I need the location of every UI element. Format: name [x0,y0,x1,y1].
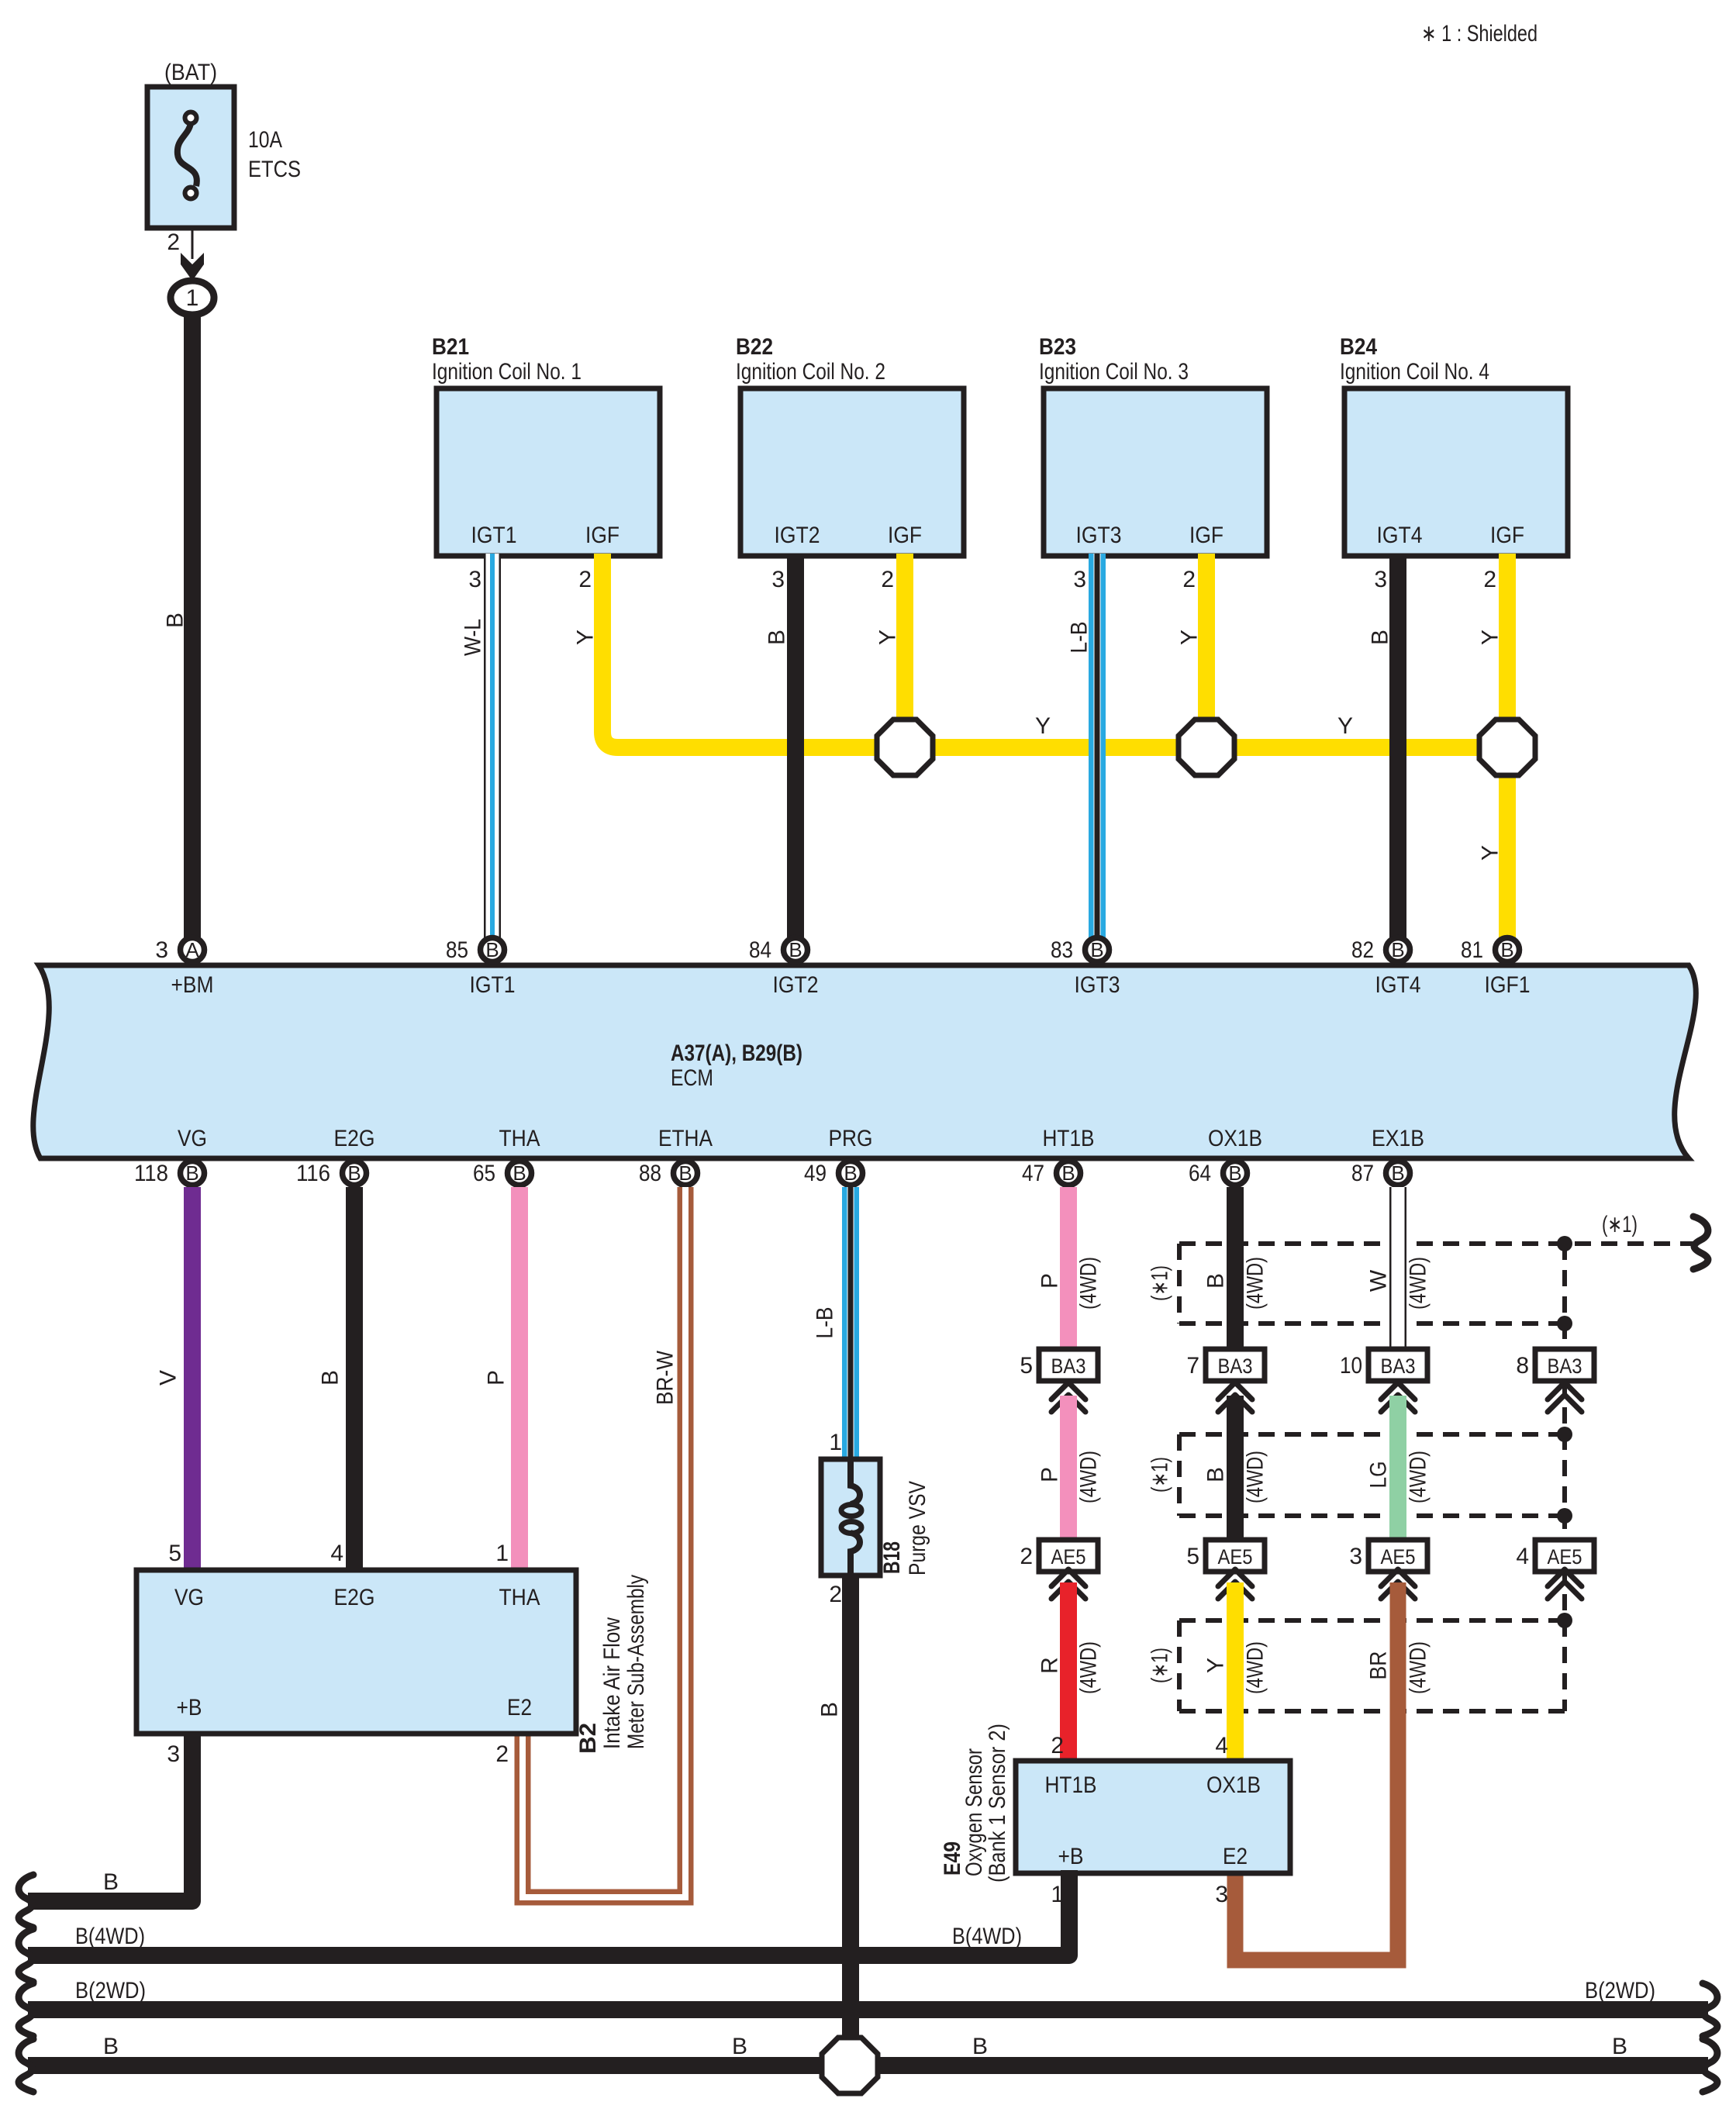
arrow into connector [181,253,204,281]
svg-text:Meter Sub-Assembly: Meter Sub-Assembly [623,1575,649,1749]
svg-text:3: 3 [1349,1544,1362,1569]
svg-text:2: 2 [1483,567,1496,592]
svg-text:W: W [1366,1269,1392,1292]
svg-text:B: B [103,2034,119,2059]
ECM pin 83 B [1051,937,1110,963]
svg-text:LG: LG [1366,1462,1392,1489]
svg-text:B: B [789,938,802,961]
wire B E2G [346,1187,363,1573]
svg-text:B: B [732,2034,747,2059]
svg-text:2: 2 [881,567,894,592]
svg-text:(∗1): (∗1) [1148,1457,1173,1493]
svg-text:B(2WD): B(2WD) [75,1978,146,2003]
svg-text:B: B [485,938,499,961]
oxygen sensor E49 [940,1724,1290,1907]
connector 4 AE5 [1516,1540,1594,1572]
wire B main ground bus [28,2057,1708,2074]
svg-text:B: B [1391,1161,1404,1185]
svg-text:49: 49 [804,1161,827,1186]
svg-text:BA3: BA3 [1381,1355,1416,1378]
svg-text:B: B [1368,630,1393,645]
svg-text:THA: THA [499,1126,540,1151]
wire BR AE5 to oxygen sensor E2 [1235,1582,1398,1960]
svg-text:64: 64 [1189,1161,1211,1186]
svg-text:8: 8 [1516,1353,1529,1379]
ignition coil B21 [432,334,660,592]
svg-text:(BAT): (BAT) [164,60,217,85]
wire B(4WD) oxygen sensor +B to ground [28,1870,1069,1955]
svg-text:EX1B: EX1B [1372,1126,1424,1151]
ECM pin 118 B [134,1161,205,1186]
svg-text:4: 4 [1215,1733,1228,1758]
svg-text:Y: Y [875,630,901,645]
svg-text:IGF: IGF [1490,523,1524,548]
ECM pin 3 A [155,937,204,963]
svg-text:BA3: BA3 [1218,1355,1253,1378]
svg-text:IGT4: IGT4 [1375,972,1421,998]
svg-text:85: 85 [446,937,468,963]
svg-text:2: 2 [167,230,180,255]
svg-text:Ignition Coil No. 1: Ignition Coil No. 1 [432,359,582,385]
svg-text:B(2WD): B(2WD) [1585,1978,1655,2003]
svg-text:(∗1): (∗1) [1148,1648,1173,1683]
svg-text:(4WD): (4WD) [1076,1257,1102,1310]
svg-text:B: B [1203,1467,1229,1482]
svg-text:118: 118 [134,1161,168,1186]
svg-text:IGT1: IGT1 [470,972,516,998]
svg-text:7: 7 [1186,1353,1199,1379]
break squiggle B bottom left [19,2039,33,2092]
svg-text:(4WD): (4WD) [1406,1641,1431,1694]
svg-text:1: 1 [495,1541,509,1566]
wire L-B IGT3 to ECM [1089,554,1106,937]
wire W EX1B to BA3 [1389,1187,1406,1352]
svg-text:10A: 10A [248,127,282,153]
svg-text:AE5: AE5 [1381,1545,1416,1569]
shield dashed box 2 [1179,1432,1565,1437]
svg-text:Y: Y [1478,630,1503,645]
svg-text:Ignition Coil No. 3: Ignition Coil No. 3 [1039,359,1189,385]
svg-text:AE5: AE5 [1051,1545,1086,1569]
connector 10 BA3 [1340,1349,1427,1381]
svg-text:IGT1: IGT1 [471,523,517,548]
svg-text:84: 84 [749,937,771,963]
svg-text:3: 3 [1215,1882,1228,1907]
svg-text:5: 5 [168,1541,181,1566]
wire Y bus from B21 IGF to IGF1 [602,554,1507,747]
svg-text:PRG: PRG [829,1126,873,1151]
svg-text:Y: Y [1203,1658,1229,1673]
svg-text:B(4WD): B(4WD) [952,1924,1022,1949]
ECM pin 81 B [1461,937,1520,963]
svg-text:87: 87 [1351,1161,1374,1186]
svg-text:IGT2: IGT2 [775,523,820,548]
wire P THA [511,1187,528,1573]
ECM pin 84 B [749,937,808,963]
connector 2 AE5 [1020,1540,1098,1572]
ECM pin 88 B [639,1161,698,1186]
junction octagon B24 [1479,720,1535,775]
svg-text:(4WD): (4WD) [1406,1257,1431,1310]
ECM pin 87 B [1351,1161,1410,1186]
svg-text:HT1B: HT1B [1043,1126,1095,1151]
wire Y drop B23 IGF [1198,554,1215,721]
purge VSV B18 [821,1430,930,1607]
svg-text:88: 88 [639,1161,661,1186]
svg-text:B: B [1203,1273,1229,1289]
svg-text:B21: B21 [432,334,469,360]
connector 7 BA3 [1186,1349,1265,1381]
ECM pin 65 B [473,1161,532,1186]
svg-text:3: 3 [167,1741,180,1767]
break squiggle B2WD left [19,1983,33,2036]
shield break squiggle [1693,1217,1708,1269]
svg-text:82: 82 [1351,937,1374,963]
svg-text:V: V [156,1370,181,1386]
svg-text:ECM: ECM [671,1065,713,1091]
svg-text:R: R [1037,1657,1063,1674]
svg-text:E2G: E2G [334,1585,375,1610]
svg-text:1: 1 [829,1430,842,1455]
svg-text:B: B [1090,938,1103,961]
svg-text:B: B [1391,938,1404,961]
break squiggle B4WD left [19,1929,33,1982]
wire LG BA3 to AE5 [1389,1396,1406,1543]
wire Y AE5 to oxygen sensor [1227,1582,1244,1764]
svg-text:B: B [1228,1161,1241,1185]
svg-text:BR-W: BR-W [653,1350,678,1405]
svg-text:B: B [1612,2034,1627,2059]
svg-text:P: P [1037,1467,1063,1482]
svg-text:1: 1 [186,285,199,311]
svg-text:(4WD): (4WD) [1243,1257,1268,1310]
svg-text:B: B [103,1869,119,1895]
ECM pin 116 B [296,1161,367,1186]
wire L-B PRG to purge VSV [842,1187,859,1462]
svg-text:Oxygen Sensor: Oxygen Sensor [961,1748,987,1876]
svg-text:OX1B: OX1B [1208,1126,1262,1151]
svg-text:A37(A), B29(B): A37(A), B29(B) [671,1041,802,1066]
svg-text:(∗1): (∗1) [1602,1212,1638,1237]
svg-text:Intake Air Flow: Intake Air Flow [599,1617,625,1749]
svg-text:2: 2 [1182,567,1196,592]
svg-text:ETHA: ETHA [658,1126,713,1151]
svg-text:65: 65 [473,1161,495,1186]
wire R AE5 to oxygen sensor [1060,1582,1077,1764]
svg-text:+BM: +BM [171,972,214,998]
svg-text:2: 2 [1020,1544,1033,1569]
svg-text:+B: +B [1058,1844,1084,1869]
svg-text:(4WD): (4WD) [1076,1641,1102,1694]
svg-text:BA3: BA3 [1051,1355,1086,1378]
svg-text:IGT3: IGT3 [1076,523,1122,548]
svg-text:B: B [318,1370,343,1386]
svg-text:3: 3 [1374,567,1387,592]
connector 3 AE5 [1349,1540,1427,1572]
ECM pin 49 B [804,1161,863,1186]
shield dashed box 3 [1179,1618,1565,1623]
ECM A37(A) B29(B) [33,965,1696,1158]
svg-text:B: B [185,1161,198,1185]
svg-text:IGT2: IGT2 [773,972,819,998]
svg-text:P: P [484,1370,509,1386]
svg-text:AE5: AE5 [1218,1545,1253,1569]
svg-text:B: B [972,2034,988,2059]
connector 1 [171,281,214,315]
svg-text:∗ 1 : Shielded: ∗ 1 : Shielded [1421,21,1538,47]
svg-text:47: 47 [1022,1161,1044,1186]
wire B(2WD) ground bus [28,2001,1708,2018]
wire BR-W ETHA to MAF E2 [523,1187,685,1897]
svg-text:B: B [1061,1161,1075,1185]
break squiggle B bottom right [1703,2039,1717,2092]
svg-text:B: B [764,630,790,645]
break squiggle B left [19,1875,33,1927]
break squiggle B2WD right [1703,1983,1717,2036]
svg-text:5: 5 [1186,1544,1199,1569]
svg-text:(4WD): (4WD) [1406,1451,1431,1503]
svg-text:IGF: IGF [585,523,620,548]
svg-text:L-B: L-B [1067,622,1092,654]
svg-text:(Bank 1 Sensor 2): (Bank 1 Sensor 2) [985,1724,1010,1883]
wire V VG [184,1187,201,1573]
svg-text:4: 4 [1516,1544,1529,1569]
svg-text:B: B [1500,938,1513,961]
svg-text:A: A [185,938,199,961]
svg-text:HT1B: HT1B [1045,1772,1097,1798]
wire Y drop B22 IGF [896,554,913,721]
ECM pin 47 B [1022,1161,1081,1186]
junction octagon B23 [1179,720,1234,775]
svg-text:2: 2 [495,1741,509,1767]
svg-text:B18: B18 [879,1541,905,1574]
wire B BA3 to AE5 [1227,1396,1244,1543]
ignition coil B23 [1039,334,1267,592]
svg-text:(4WD): (4WD) [1243,1641,1268,1694]
svg-text:P: P [1037,1273,1063,1289]
svg-text:Y: Y [1177,630,1203,645]
svg-text:Y: Y [1337,713,1353,739]
svg-text:B23: B23 [1039,334,1076,360]
svg-text:ETCS: ETCS [248,157,301,182]
svg-text:2: 2 [829,1582,842,1607]
ECM pin 82 B [1351,937,1410,963]
shield dashed box 1 [1179,1244,1694,1711]
svg-text:IGF: IGF [888,523,922,548]
connector 5 BA3 [1020,1349,1098,1381]
connector 8 BA3 [1516,1349,1594,1381]
svg-text:116: 116 [296,1161,330,1186]
svg-text:THA: THA [499,1585,540,1610]
svg-text:3: 3 [155,937,168,963]
wire B IGT4 to ECM [1389,554,1406,937]
svg-text:AE5: AE5 [1548,1545,1582,1569]
wire B OX1B to BA3 [1227,1187,1244,1352]
wire fuse to connector [192,228,194,259]
svg-text:VG: VG [178,1126,207,1151]
svg-text:Ignition Coil No. 2: Ignition Coil No. 2 [736,359,885,385]
wire B fuse to ECM +BM [184,314,201,937]
wire B IGT2 to ECM [787,554,804,937]
wire B purge VSV to ground [842,1575,859,2039]
shield junction dots [1557,1236,1572,1251]
svg-text:IGT3: IGT3 [1075,972,1120,998]
wire Y from junction to ECM IGF1 [1499,774,1516,937]
svg-text:81: 81 [1461,937,1483,963]
ignition coil B22 [736,334,964,592]
svg-text:B: B [817,1702,843,1717]
ground junction octagon [822,2038,878,2093]
ignition coil B24 [1340,334,1568,592]
svg-text:OX1B: OX1B [1206,1772,1261,1798]
svg-text:83: 83 [1051,937,1073,963]
wire P HT1B to BA3 [1060,1187,1077,1352]
svg-text:(4WD): (4WD) [1076,1451,1102,1503]
svg-text:B: B [844,1161,857,1185]
svg-text:B: B [513,1161,526,1185]
wire P BA3 to AE5 [1060,1396,1077,1543]
svg-text:B22: B22 [736,334,773,360]
ECM pin 64 B [1189,1161,1248,1186]
svg-text:(∗1): (∗1) [1148,1265,1173,1301]
svg-text:B2: B2 [575,1723,601,1754]
svg-text:L-B: L-B [813,1307,838,1339]
svg-text:E2G: E2G [334,1126,375,1151]
junction octagon B22 [877,720,933,775]
svg-text:B(4WD): B(4WD) [75,1924,145,1949]
connector 5 AE5 [1186,1540,1265,1572]
svg-text:2: 2 [578,567,592,592]
svg-text:Y: Y [573,630,599,645]
wire B MAF +B to ground [28,1734,192,1901]
svg-text:B: B [678,1161,692,1185]
svg-text:IGF: IGF [1189,523,1223,548]
svg-text:Y: Y [1035,713,1051,739]
svg-text:B24: B24 [1340,334,1377,360]
svg-text:(4WD): (4WD) [1243,1451,1268,1503]
svg-text:IGF1: IGF1 [1485,972,1531,998]
intake air flow meter B2 [136,1541,649,1767]
shield drain dashed vertical [1562,1244,1567,1349]
svg-text:3: 3 [468,567,481,592]
svg-text:3: 3 [1073,567,1086,592]
svg-text:B: B [163,613,188,628]
svg-text:+B: +B [177,1695,202,1720]
svg-text:5: 5 [1020,1353,1033,1379]
fuse 10A ETCS [147,60,301,228]
svg-text:B: B [347,1161,361,1185]
ECM pin 85 B [446,937,505,963]
svg-text:3: 3 [771,567,785,592]
svg-text:IGT4: IGT4 [1377,523,1423,548]
svg-text:E2: E2 [1223,1844,1248,1869]
wire W-L IGT1 to ECM [484,554,501,937]
svg-text:Ignition Coil No. 4: Ignition Coil No. 4 [1340,359,1489,385]
svg-text:Purge VSV: Purge VSV [905,1481,930,1575]
svg-text:VG: VG [174,1585,204,1610]
svg-text:E2: E2 [507,1695,532,1720]
svg-text:4: 4 [330,1541,343,1566]
svg-text:2: 2 [1051,1733,1064,1758]
svg-text:W-L: W-L [461,619,486,656]
svg-text:Y: Y [1478,845,1503,861]
svg-text:10: 10 [1340,1353,1362,1379]
svg-text:BA3: BA3 [1548,1355,1582,1378]
svg-text:BR: BR [1366,1651,1392,1680]
wire Y drop B24 IGF [1499,554,1516,721]
